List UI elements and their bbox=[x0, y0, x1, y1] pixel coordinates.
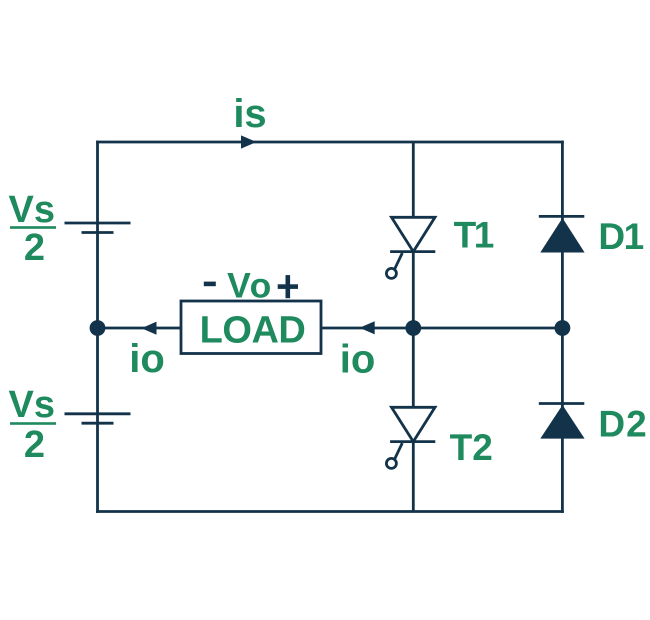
svg-text:T1: T1 bbox=[454, 214, 494, 255]
arrow io left bbox=[142, 322, 157, 335]
wire thyristor rail middle bbox=[412, 252, 415, 408]
svg-text:T2: T2 bbox=[450, 427, 493, 468]
svg-text:LOAD: LOAD bbox=[200, 310, 306, 352]
label minus (Vo polarity) bbox=[204, 282, 216, 287]
svg-text:Vo: Vo bbox=[227, 265, 273, 305]
arrow is current direction bbox=[241, 135, 257, 148]
wire diode rail bbox=[561, 142, 564, 512]
svg-text:is: is bbox=[233, 92, 266, 136]
svg-text:D1: D1 bbox=[598, 216, 643, 257]
svg-text:2: 2 bbox=[24, 227, 45, 269]
svg-text:2: 2 bbox=[24, 424, 45, 466]
value label Vs/2 bottom bbox=[9, 384, 56, 466]
svg-text:D2: D2 bbox=[598, 403, 647, 444]
wire top rail bbox=[98, 141, 563, 144]
node junction right (diode rail) bbox=[555, 320, 571, 336]
wire mid-left (load to left rail) bbox=[98, 327, 182, 330]
wire left rail bbox=[96, 142, 99, 512]
node junction left (load return) bbox=[90, 320, 106, 336]
svg-text:io: io bbox=[340, 337, 376, 381]
battery B2 bottom Vs/2 bbox=[65, 414, 131, 423]
thyristor T2 bbox=[386, 407, 435, 468]
wire bottom rail bbox=[98, 510, 563, 513]
arrow io right bbox=[360, 321, 375, 334]
diode D1 bbox=[539, 216, 585, 252]
label plus (Vo polarity) bbox=[278, 275, 298, 298]
svg-text:Vs: Vs bbox=[9, 384, 55, 426]
thyristor T1 bbox=[386, 217, 435, 278]
value label Vs/2 top bbox=[9, 189, 56, 269]
wire thyristor rail upper bbox=[412, 142, 415, 217]
node junction center (thyristor rail) bbox=[405, 320, 421, 336]
wire thyristor rail lower bbox=[412, 442, 415, 512]
wire mid-right (load to thyristor rail and diode rail) bbox=[321, 327, 562, 330]
svg-text:io: io bbox=[129, 337, 165, 381]
diode D2 bbox=[539, 404, 585, 439]
resistor LOAD box bbox=[181, 301, 321, 354]
battery B1 top Vs/2 bbox=[65, 223, 131, 233]
svg-text:Vs: Vs bbox=[9, 189, 55, 231]
